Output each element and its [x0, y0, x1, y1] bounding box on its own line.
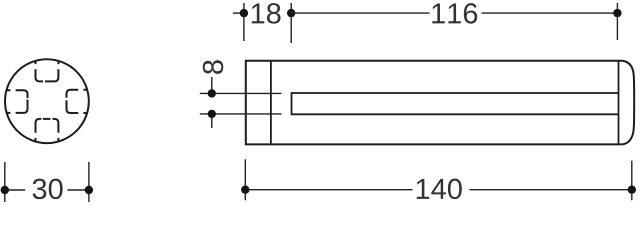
right slot (dashed)	[67, 90, 88, 113]
dim 140: dimension line left segment	[245, 189, 412, 191]
side view: groove slot	[292, 93, 619, 114]
dim 18: value text	[252, 3, 281, 24]
dim 30: left extension line	[4, 162, 6, 202]
dim 116: dimension line left segment	[291, 12, 429, 14]
dim 30: right dot terminator	[85, 186, 93, 194]
left slot (dashed)	[7, 90, 28, 113]
dim 30: value text	[33, 179, 63, 200]
dim 18: right dot terminator	[287, 9, 295, 17]
side view: tangent line where dome begins	[618, 61, 620, 145]
dim 18: outside stub left	[233, 12, 244, 14]
dim 140: left extension line	[244, 159, 246, 200]
dim 116: right dot terminator	[613, 9, 621, 17]
side view: inner vertical edge line near left	[270, 61, 272, 145]
dim 8: lower dot terminator	[208, 110, 216, 118]
dim 140: dimension line right segment	[470, 189, 632, 191]
dim 116: dimension line right segment	[482, 12, 618, 14]
dim 30: left dimension line segment	[5, 189, 25, 191]
dim 8: outside stub below	[211, 114, 213, 128]
dim 30: right dimension line segment	[68, 189, 89, 191]
top slot (dashed)	[36, 61, 59, 82]
dim 18: left dot terminator	[240, 9, 248, 17]
dim 8: upper extension line	[200, 92, 282, 94]
dim 8: lower extension line	[200, 113, 282, 115]
dim 140: left dot terminator	[241, 186, 249, 194]
dim 8: upper dot terminator	[208, 89, 216, 97]
dim 30: left dot terminator	[1, 186, 9, 194]
dim 8: outside stub above	[211, 77, 213, 93]
side view: body outline with domed right end	[246, 61, 634, 145]
dim 140: value text	[417, 179, 462, 200]
bottom slot (dashed)	[36, 119, 59, 142]
dim 116: value text	[432, 3, 477, 24]
dim 30: right extension line	[88, 162, 90, 202]
end view: circle outline	[5, 59, 89, 143]
dim 116: right extension line	[616, 3, 618, 40]
dim 140: right extension line	[631, 161, 633, 201]
dim 18: right extension line	[290, 3, 292, 43]
dim 18: left extension line	[243, 3, 245, 41]
dim 8: value text (rotated)	[203, 60, 224, 74]
dim 140: right dot terminator	[628, 186, 636, 194]
